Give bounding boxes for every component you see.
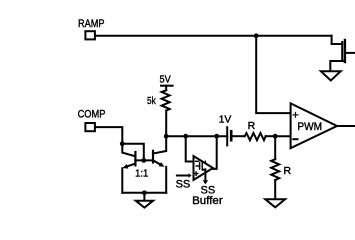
wire battery to R3	[231, 135, 245, 137]
wire PWM output	[337, 125, 355, 127]
resistor R3 zigzag	[245, 133, 266, 140]
battery V1 long bar	[226, 127, 228, 145]
wire buffer pulldown arrow	[204, 169, 206, 180]
junction dot mirror bottom	[142, 190, 147, 195]
wire Q1 source	[330, 61, 345, 71]
wire bus	[166, 135, 227, 137]
label minus PWM	[293, 138, 297, 140]
ground G1 below Q1	[321, 71, 341, 80]
arrowhead Q2 emitter	[123, 164, 129, 169]
transistor Q3 emitter	[153, 160, 166, 193]
label plus inside buffer	[194, 172, 197, 175]
wire gate lead of Q1	[332, 36, 343, 44]
power rail 5V bar	[161, 85, 173, 87]
transistor Q1 channel bar	[344, 40, 346, 62]
transistor Q4 gate bar	[199, 163, 201, 169]
junction dot bus buffer feedback	[183, 134, 188, 139]
svg-text:SS: SS	[176, 178, 191, 190]
label minus inside buffer	[196, 160, 199, 162]
ground G3 below R4	[265, 199, 285, 207]
wire R3 to node	[266, 135, 276, 137]
op-amp U1 SS buffer triangle	[194, 156, 214, 180]
wire Q1 drain stub	[345, 52, 355, 54]
wire ground stub mirror	[143, 193, 145, 201]
wire node to PWM minus input	[275, 135, 290, 137]
svg-text:RAMP: RAMP	[78, 18, 105, 30]
svg-text:1:1: 1:1	[135, 168, 148, 180]
wire Q4 drain	[202, 161, 205, 162]
svg-text:PWM: PWM	[297, 121, 322, 133]
svg-text:+: +	[292, 110, 298, 122]
op-amp U2 PWM comparator triangle	[291, 103, 337, 148]
wire mirror bottom rail	[122, 192, 166, 194]
svg-text:COMP: COMP	[78, 109, 106, 121]
terminal RAMP	[85, 31, 95, 39]
transistor Q2 emitter	[122, 164, 135, 193]
svg-text:1V: 1V	[219, 113, 232, 125]
transistor Q2 collector	[122, 144, 135, 157]
wire mirror base line	[135, 159, 153, 161]
wire mirror top rail	[122, 144, 144, 161]
wire R2 bottom to bus	[165, 111, 167, 137]
wire RAMP horizontal	[96, 35, 332, 37]
resistor R4 zigzag	[271, 159, 279, 180]
arrowhead Q4 source	[202, 168, 205, 171]
transistor Q3 collector	[153, 136, 166, 153]
wire node down to R4	[274, 136, 276, 159]
svg-text:R: R	[284, 165, 292, 177]
wire COMP to mirror	[96, 127, 122, 144]
svg-text:5k: 5k	[147, 95, 156, 107]
transistor Q1 gate bar	[341, 42, 343, 61]
wire SS input arrow	[177, 175, 189, 177]
transistor Q4 inside buffer gate lead	[196, 165, 199, 167]
junction dot RAMP node	[254, 33, 259, 38]
transistor Q3 base bar	[152, 151, 154, 163]
junction dot mirror base tie	[141, 158, 146, 163]
arrowhead Q3 emitter	[159, 162, 165, 167]
svg-text:5V: 5V	[160, 73, 171, 85]
terminal COMP	[85, 123, 95, 131]
wire Q4 source	[202, 168, 205, 170]
junction dot R node	[273, 134, 278, 139]
svg-text:R: R	[248, 120, 256, 132]
transistor Q2 base bar	[134, 152, 136, 165]
junction dot bus left	[164, 134, 169, 139]
svg-text:Buffer: Buffer	[192, 195, 223, 207]
junction dot bus buffer output	[214, 134, 219, 139]
wire 5V bar to R2	[165, 86, 167, 91]
resistor R2 5k zigzag	[162, 90, 170, 110]
ground G2 below mirror	[136, 201, 153, 208]
transistor Q4 channel bar	[201, 162, 203, 170]
junction dot mirror top	[120, 141, 125, 146]
wire buffer output to bus	[213, 136, 217, 169]
wire buffer inverting input from bus	[186, 136, 194, 161]
wire RAMP node down to PWM plus input	[256, 36, 290, 113]
battery V1 short bar	[230, 131, 233, 140]
wire R4 to ground	[274, 180, 276, 199]
arrowhead buffer pulldown	[203, 180, 208, 184]
arrowhead SS input	[189, 173, 192, 178]
